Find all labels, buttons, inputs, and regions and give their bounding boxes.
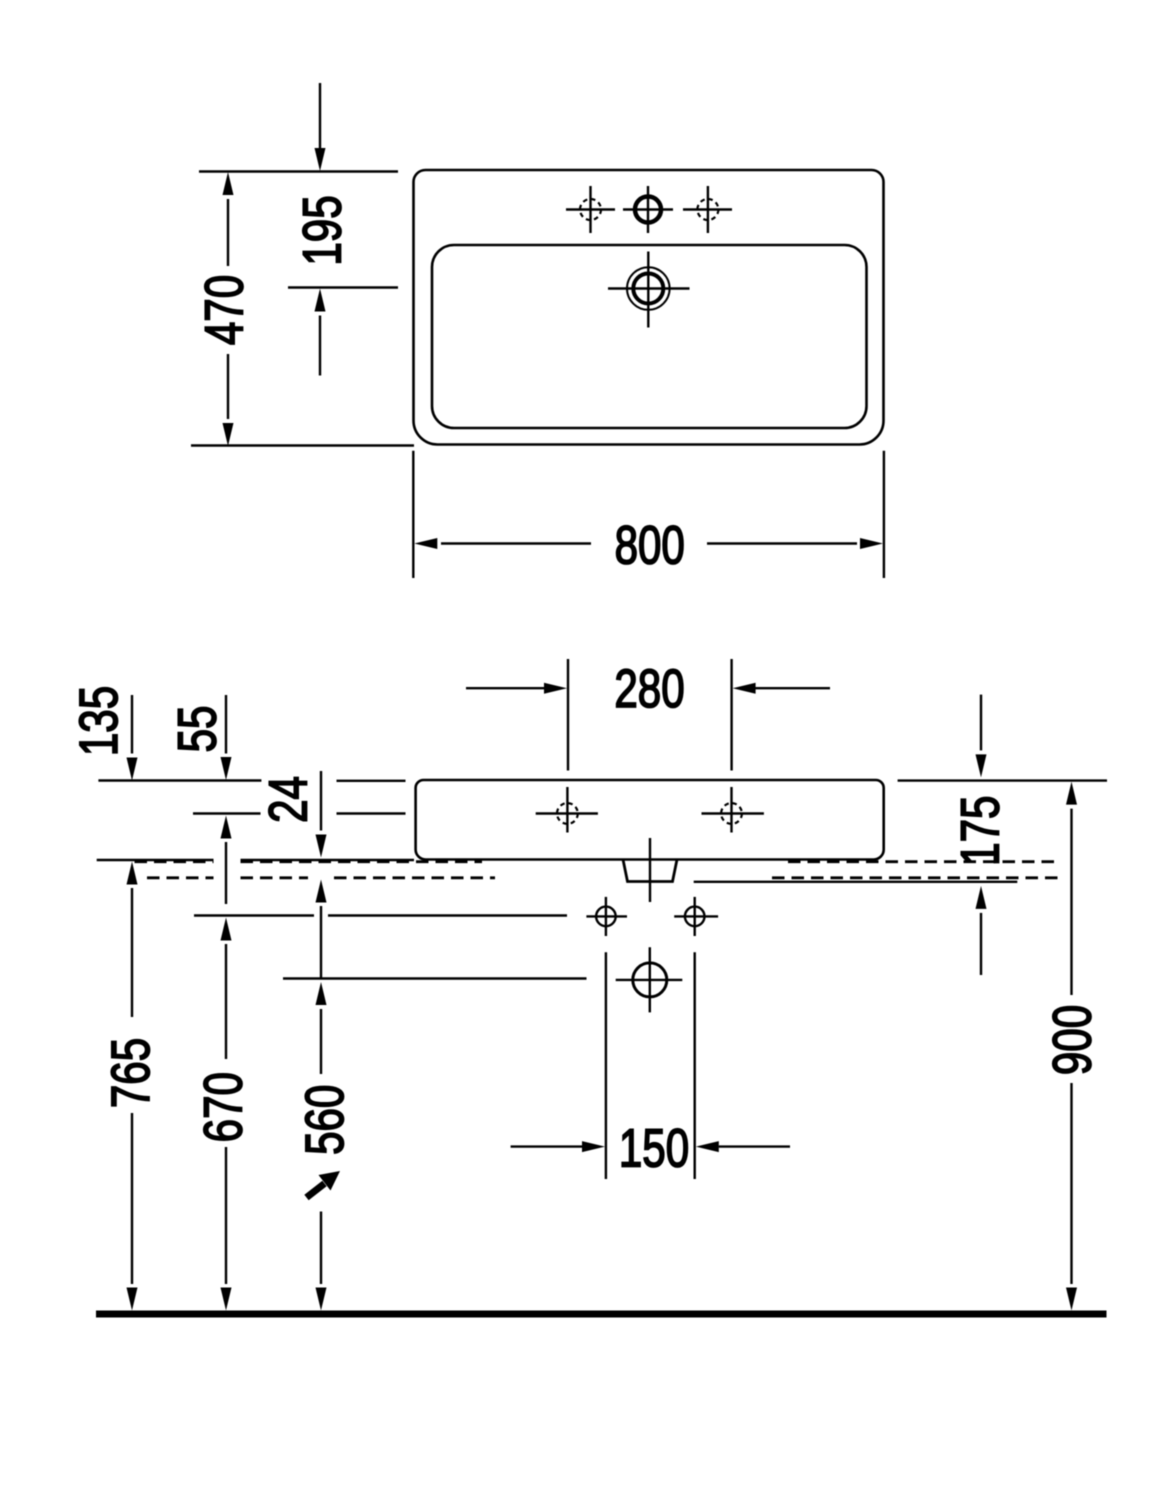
reference line right (175 lower) [694, 881, 1018, 883]
svg-text:135: 135 [69, 686, 129, 756]
svg-text:175: 175 [951, 796, 1011, 866]
extension line tap axis (right of 24) [337, 812, 406, 814]
svg-text:800: 800 [615, 516, 685, 576]
arrow 195 lower (pointing up) [315, 289, 326, 376]
fixing bolt hole right [674, 897, 718, 936]
elevation tap hole left (dashed) [536, 787, 598, 833]
arrow 195 upper (pointing down to basin front edge) [315, 83, 326, 171]
dimension 280 right arrow [733, 683, 830, 694]
elevation tap hole right (dashed) [702, 787, 764, 833]
extension line basin front edge [199, 170, 398, 172]
svg-text:900: 900 [1043, 1005, 1103, 1075]
reference line drain centre [283, 977, 587, 979]
dimension 24/560 chain [316, 771, 327, 1311]
tap hole right (dashed) [683, 186, 732, 233]
svg-text:195: 195 [292, 195, 352, 265]
drain spigot (trapezoid) [623, 860, 677, 882]
dimension 800 extension lines [412, 451, 414, 578]
dimension 150 arrows [511, 1141, 790, 1152]
dimension 280 extension lines [567, 659, 569, 771]
washbasin body (elevation) [416, 780, 884, 860]
extension line tap hole axis [288, 286, 398, 288]
tap hole centre (solid) [623, 186, 673, 233]
svg-text:765: 765 [101, 1038, 161, 1108]
reference line basin underside left [97, 859, 414, 861]
svg-text:670: 670 [194, 1072, 254, 1142]
dimension 55/670 chain [221, 695, 232, 1311]
reference line fixing bolts [194, 914, 567, 916]
svg-text:280: 280 [614, 659, 684, 719]
dimension 135/765 chain [127, 695, 138, 1311]
dimension 800 line with arrows [414, 538, 883, 549]
extension line basin rear edge [191, 444, 414, 446]
extension line basin top left [98, 779, 261, 781]
dimension 280 left arrow [466, 683, 567, 694]
extension line tap axis left [193, 812, 261, 814]
overflow / drain hole (plan) [608, 252, 690, 328]
extension line basin top (right of 24) [337, 780, 406, 782]
washbasin outer rim (plan) [414, 170, 884, 445]
svg-text:150: 150 [619, 1118, 689, 1178]
dimension 900 chain [1066, 782, 1077, 1311]
dimension 470 line with arrows [223, 172, 234, 446]
svg-text:560: 560 [295, 1085, 355, 1155]
tap hole left (dashed) [566, 186, 615, 233]
small NE pointer arrow [307, 1171, 341, 1198]
extension line basin top right [898, 779, 1107, 781]
waste outlet circle (elevation) [616, 947, 683, 1012]
svg-text:470: 470 [195, 275, 255, 345]
dashed reference line lower [147, 876, 1061, 879]
dimension 175 chain [976, 695, 987, 975]
washbasin inner bowl (plan) [432, 245, 867, 428]
svg-text:55: 55 [168, 706, 228, 753]
fixing bolt hole left [586, 897, 627, 936]
dashed reference line upper [135, 860, 1062, 863]
svg-text:24: 24 [259, 776, 319, 823]
drain centre line [649, 838, 651, 902]
floor line [96, 1311, 1107, 1318]
dimension 150 extension lines [605, 952, 607, 1179]
